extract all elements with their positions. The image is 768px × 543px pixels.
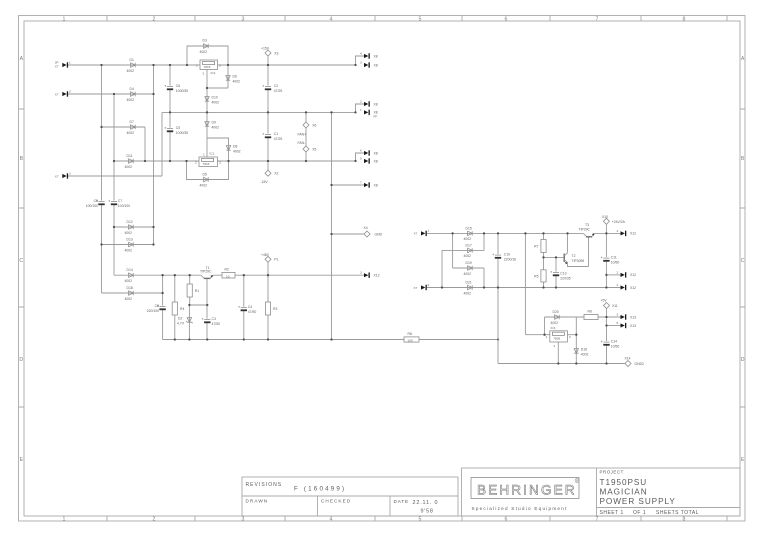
- frame row ticks right: [740, 109, 745, 407]
- wire W2 y94: [68, 93, 154, 95]
- svg-text:47/50: 47/50: [212, 322, 221, 326]
- svg-text:4002: 4002: [127, 69, 135, 73]
- connector X8 pin 4: [360, 52, 378, 59]
- svg-text:SHEETS TOTAL: SHEETS TOTAL: [656, 510, 699, 516]
- svg-text:POWER SUPPLY: POWER SUPPLY: [600, 497, 676, 506]
- wire C13 column x556: [555, 257, 557, 287]
- wire D18 row y293: [102, 292, 163, 294]
- wire W1 +raw rail y65: [68, 64, 356, 66]
- node X2 -15V: [261, 170, 279, 184]
- svg-text:D13: D13: [127, 238, 133, 242]
- diode D5 bypass: [200, 173, 209, 188]
- svg-text:TIP3055: TIP3055: [572, 259, 585, 263]
- wire D12 row y227: [114, 226, 154, 228]
- svg-text:3: 3: [242, 517, 245, 523]
- diode D19: [464, 261, 473, 276]
- transistor T3: [579, 223, 595, 237]
- svg-text:47/25: 47/25: [274, 89, 283, 93]
- frame column ticks top: [107, 16, 727, 22]
- svg-text:C1: C1: [274, 132, 278, 136]
- svg-text:BEHRINGER: BEHRINGER: [477, 483, 577, 498]
- svg-text:D8: D8: [233, 145, 237, 149]
- wire C4 column x243.8: [243, 275, 245, 339]
- svg-text:4002: 4002: [581, 352, 589, 356]
- svg-text:3: 3: [69, 171, 71, 175]
- svg-text:4002: 4002: [464, 237, 472, 241]
- capacitor C10: [492, 253, 516, 262]
- wire D3 bypass loop: [187, 46, 228, 65]
- svg-text:100/100: 100/100: [86, 204, 98, 208]
- wire T2 collector column x567.5: [567, 233, 569, 252]
- svg-text:GND2: GND2: [635, 362, 645, 366]
- capacitor C3: [202, 317, 220, 326]
- svg-text:D11: D11: [127, 154, 133, 158]
- diode D9: [205, 121, 219, 130]
- connector X12 pin 3: [360, 271, 380, 278]
- svg-text:Specialized Studio Equipment: Specialized Studio Equipment: [472, 506, 568, 511]
- svg-text:+48V: +48V: [261, 253, 270, 257]
- wire D8 column x228.5: [207, 138, 229, 161]
- diode D4: [127, 87, 136, 102]
- svg-text:2200/16: 2200/16: [504, 258, 516, 262]
- node X3 +15V: [261, 47, 278, 57]
- svg-text:C14: C14: [611, 340, 617, 344]
- svg-text:D7: D7: [130, 120, 134, 124]
- wire D14 +48 row y275.2: [114, 274, 364, 276]
- wire RH3 D19 row y268: [453, 267, 484, 269]
- diode D15: [464, 226, 473, 241]
- svg-text:100/100: 100/100: [118, 204, 130, 208]
- svg-text:220/35: 220/35: [560, 277, 570, 281]
- svg-text:9'58: 9'58: [421, 509, 434, 515]
- svg-text:D6: D6: [233, 75, 237, 79]
- svg-text:X7: X7: [55, 174, 59, 178]
- svg-text:47/25: 47/25: [274, 137, 283, 141]
- svg-text:R8: R8: [408, 332, 412, 336]
- svg-text:D5: D5: [203, 173, 207, 177]
- wire T1 base vertical x207.3: [206, 279, 208, 340]
- diode D8: [226, 145, 240, 154]
- wire D20 loop left x544.5: [544, 317, 546, 335]
- wire R7 R5 column x543.5: [543, 233, 545, 287]
- junction dots left: [100, 64, 499, 341]
- svg-text:2: 2: [360, 100, 362, 104]
- node X5 FAN-: [298, 141, 317, 152]
- wire T2 base row y257.4: [544, 256, 564, 258]
- svg-text:2: 2: [428, 283, 430, 287]
- svg-text:X4: X4: [364, 226, 368, 230]
- svg-text:1: 1: [428, 229, 430, 233]
- svg-text:4.7V: 4.7V: [177, 322, 185, 326]
- capacitor C13: [550, 271, 570, 281]
- svg-text:1: 1: [360, 108, 362, 112]
- svg-text:C8: C8: [155, 304, 159, 308]
- svg-text:5: 5: [617, 321, 619, 325]
- svg-text:4002: 4002: [125, 297, 133, 301]
- wire vertical x268 output column: [267, 56, 269, 170]
- connector X8 pin 5: [360, 157, 378, 164]
- svg-text:IC3: IC3: [551, 326, 556, 330]
- TITLEBLOCK: [242, 468, 740, 516]
- svg-text:C: C: [19, 258, 23, 264]
- wire R4 column x174.8: [174, 275, 176, 339]
- node X6 FAN+: [298, 122, 317, 137]
- svg-text:X12: X12: [630, 232, 636, 236]
- svg-text:C3: C3: [212, 317, 216, 321]
- connector X12 pin 1: [617, 283, 637, 290]
- svg-text:4002: 4002: [464, 254, 472, 258]
- diode D10: [205, 96, 219, 105]
- svg-text:C4: C4: [248, 305, 252, 309]
- svg-text:A: A: [20, 56, 24, 62]
- transistor T1: [200, 266, 213, 279]
- wire vertical x331.5: [331, 112, 333, 339]
- svg-text:10/50: 10/50: [611, 345, 620, 349]
- wire X13 pin5 row y325.5: [607, 325, 621, 327]
- wire W3 stub to pin2: [356, 104, 365, 112]
- svg-text:4002: 4002: [464, 291, 472, 295]
- wire T1 base node row y305: [189, 304, 207, 306]
- wire P1 R3 column x268: [267, 262, 269, 339]
- wire C10 column x498: [497, 233, 499, 363]
- svg-text:4002: 4002: [127, 131, 135, 135]
- resistor R3: [265, 302, 277, 315]
- svg-text:C13: C13: [560, 272, 566, 276]
- svg-text:X8: X8: [374, 102, 378, 106]
- svg-text:X8: X8: [374, 63, 378, 67]
- diode D13: [125, 238, 134, 253]
- svg-text:D2: D2: [178, 317, 182, 321]
- svg-text:220/100: 220/100: [147, 309, 159, 313]
- svg-text:3: 3: [360, 271, 362, 275]
- diode D17: [464, 243, 473, 258]
- svg-text:+24V/2A: +24V/2A: [612, 220, 626, 224]
- capacitor C1: [262, 132, 282, 141]
- resistor R2: [222, 268, 235, 279]
- node X11 +5V: [601, 299, 618, 309]
- svg-text:D4: D4: [130, 87, 134, 91]
- connector X8 pin 2: [360, 100, 378, 107]
- regulator IC1: [195, 152, 221, 167]
- sheet line: [600, 510, 699, 516]
- connector X7b pin 1: [414, 229, 430, 236]
- svg-text:MAGICIAN: MAGICIAN: [600, 488, 648, 497]
- svg-text:1000/35: 1000/35: [176, 89, 188, 93]
- svg-text:4002: 4002: [464, 272, 472, 276]
- wire C8 column x162.6: [162, 275, 164, 339]
- wire bridge vertical x484: [483, 233, 485, 287]
- svg-text:IC2: IC2: [211, 71, 216, 75]
- svg-text:-15V: -15V: [261, 180, 269, 184]
- connector X8 pin 3: [360, 61, 378, 68]
- connector X7b pin 2: [414, 283, 430, 290]
- date cell: [394, 499, 439, 515]
- frame column numbers bottom: [63, 517, 686, 523]
- svg-text:X6: X6: [312, 123, 316, 127]
- svg-text:8: 8: [683, 517, 686, 523]
- svg-text:E: E: [741, 457, 745, 463]
- svg-text:X8: X8: [374, 151, 378, 155]
- wire bridge vertical x452.6: [452, 233, 454, 268]
- connector X12 pin 4: [617, 229, 637, 236]
- svg-text:4002: 4002: [551, 321, 559, 325]
- svg-text:D: D: [19, 357, 23, 363]
- svg-text:B: B: [20, 156, 24, 162]
- svg-text:5: 5: [419, 16, 422, 22]
- connector X8 pin 1: [360, 108, 378, 119]
- svg-text:D14: D14: [127, 268, 133, 272]
- wire bottom rail y339.5: [163, 339, 498, 341]
- svg-text:X8: X8: [374, 159, 378, 163]
- node X10 +24V: [602, 215, 626, 224]
- behringer logo box: [471, 478, 579, 499]
- wire IC3 output row y334.7: [567, 334, 576, 336]
- wire IC3 gnd pin x558.3: [557, 342, 559, 364]
- svg-text:IC1: IC1: [210, 152, 215, 156]
- capacitor C7: [108, 199, 130, 208]
- svg-text:X11: X11: [612, 304, 618, 308]
- svg-text:T2: T2: [572, 254, 576, 258]
- wire X12 pin2 row y274.9: [606, 274, 620, 276]
- svg-text:4002: 4002: [200, 184, 208, 188]
- svg-text:R5: R5: [534, 275, 538, 279]
- diode D1: [127, 58, 136, 73]
- node X4 GND: [364, 226, 383, 237]
- svg-text:1: 1: [617, 283, 619, 287]
- svg-text:2: 2: [69, 89, 71, 93]
- frame column ticks bottom: [107, 516, 727, 521]
- diode D14: [125, 268, 134, 283]
- svg-text:5: 5: [360, 157, 362, 161]
- node P1 +48V: [261, 253, 278, 262]
- revisions header text: [246, 482, 347, 493]
- svg-text:4002: 4002: [233, 79, 241, 83]
- svg-text:C11: C11: [611, 256, 617, 260]
- wire vertical x101.5: [101, 65, 103, 293]
- wire W5 -raw rail y161: [114, 160, 356, 162]
- capacitor C11: [601, 256, 620, 265]
- zener D2 4.7V: [177, 317, 193, 326]
- svg-text:4002: 4002: [233, 149, 241, 153]
- svg-text:FF: FF: [374, 115, 378, 119]
- svg-text:D17: D17: [466, 243, 472, 247]
- svg-text:D10: D10: [212, 96, 218, 100]
- svg-text:X12: X12: [630, 273, 636, 277]
- wire IC3 feed column x525.4: [524, 233, 526, 334]
- diode D18: [125, 286, 134, 301]
- wire pin7 row y185: [332, 184, 365, 186]
- svg-text:3: 3: [242, 16, 245, 22]
- svg-text:T3: T3: [585, 223, 589, 227]
- wire fan stub column x306: [305, 112, 307, 161]
- svg-text:7805: 7805: [553, 336, 560, 340]
- svg-text:1: 1: [546, 335, 548, 339]
- svg-text:SHEET 1: SHEET 1: [600, 510, 624, 516]
- svg-text:B: B: [741, 156, 745, 162]
- transistor T2: [564, 253, 584, 264]
- connector X8 pin 6: [360, 149, 378, 156]
- wire vertical x170 C6 C5 column: [169, 65, 171, 161]
- svg-text:D3: D3: [203, 39, 207, 43]
- svg-text:X5: X5: [312, 147, 316, 151]
- svg-text:1000/35: 1000/35: [176, 131, 188, 135]
- wire W1 stub to pin4: [356, 56, 365, 65]
- capacitor C8: [147, 304, 166, 313]
- svg-text:3: 3: [219, 64, 221, 68]
- node X14 GND2: [625, 356, 645, 366]
- diode D11: [125, 154, 134, 169]
- svg-text:C6: C6: [176, 84, 180, 88]
- capacitor C5: [164, 126, 188, 135]
- svg-text:D16: D16: [581, 348, 587, 352]
- wire bridge vertical x442: [441, 250, 443, 287]
- wire T2 emitter to T3 base: [568, 237, 589, 267]
- wire C11 column x606.4: [605, 224, 607, 287]
- svg-text:A: A: [741, 56, 745, 62]
- svg-text:4: 4: [330, 517, 333, 523]
- svg-text:D12: D12: [127, 220, 133, 224]
- wire vertical x114: [113, 94, 115, 275]
- capacitor C6: [164, 84, 188, 93]
- svg-text:FAN-: FAN-: [298, 141, 306, 145]
- wire RH1 +raw24 rail y233.4: [427, 232, 621, 234]
- svg-text:4002: 4002: [200, 50, 208, 54]
- svg-text:6: 6: [360, 149, 362, 153]
- junction dots right: [441, 232, 608, 364]
- svg-text:4002: 4002: [212, 125, 220, 129]
- wire D16 column x576.3: [575, 317, 577, 364]
- svg-text:TIP29C: TIP29C: [200, 270, 212, 274]
- connector X12 pin 2: [617, 270, 637, 277]
- svg-text:3: 3: [219, 161, 221, 165]
- svg-text:TIP29C: TIP29C: [579, 228, 591, 232]
- svg-text:D21: D21: [466, 281, 472, 285]
- svg-text:GND: GND: [375, 232, 383, 236]
- svg-text:D15: D15: [466, 226, 472, 230]
- svg-text:OF 1: OF 1: [633, 510, 646, 516]
- regulator IC3: [546, 326, 571, 348]
- svg-text:+15V: +15V: [261, 47, 270, 51]
- svg-text:CHECKED: CHECKED: [321, 499, 351, 504]
- svg-text:X12: X12: [630, 286, 636, 290]
- svg-text:E: E: [20, 457, 24, 463]
- svg-text:D18: D18: [127, 286, 133, 290]
- svg-text:4002: 4002: [125, 279, 133, 283]
- svg-text:F (160499): F (160499): [294, 486, 346, 493]
- wire R1 zener column x189.5: [188, 275, 190, 339]
- svg-text:X2: X2: [274, 172, 278, 176]
- svg-text:2: 2: [617, 270, 619, 274]
- connector X13 pin 3: [617, 313, 637, 320]
- regulator IC2: [196, 60, 221, 76]
- svg-text:10/50: 10/50: [611, 261, 620, 265]
- svg-text:X7: X7: [55, 64, 59, 68]
- svg-text:7: 7: [596, 517, 599, 523]
- svg-text:6: 6: [505, 517, 508, 523]
- svg-text:22.11. 0: 22.11. 0: [413, 500, 439, 506]
- svg-text:D: D: [741, 357, 745, 363]
- svg-text:+5V: +5V: [601, 299, 608, 303]
- svg-text:D20: D20: [553, 310, 559, 314]
- svg-text:1: 1: [63, 16, 66, 22]
- svg-text:C10: C10: [504, 253, 510, 257]
- capacitor C9: [86, 199, 105, 208]
- svg-text:7815: 7815: [204, 65, 211, 69]
- frame row letters left: [19, 56, 23, 463]
- svg-text:X12: X12: [374, 274, 380, 278]
- svg-text:7: 7: [596, 16, 599, 22]
- wire vertical x145: [144, 127, 146, 161]
- wire +5 rail y317: [545, 316, 621, 318]
- resistor R8: [404, 332, 419, 342]
- svg-text:DRAWN: DRAWN: [246, 499, 269, 504]
- resistor R4: [172, 302, 184, 315]
- svg-text:FAN+: FAN+: [298, 133, 307, 137]
- svg-text:2: 2: [554, 344, 556, 348]
- wire gnd row y234: [332, 233, 365, 235]
- resistor R7: [534, 240, 546, 253]
- wire vertical x162 center tap riser: [161, 112, 163, 176]
- wire vertical x153.5: [153, 65, 155, 245]
- frame row ticks left: [19, 109, 25, 407]
- svg-text:1: 1: [63, 517, 66, 523]
- svg-text:2: 2: [153, 517, 156, 523]
- diode D21: [464, 281, 473, 296]
- wire W5 stub to pin6: [356, 153, 365, 161]
- svg-text:T1950PSU: T1950PSU: [600, 478, 648, 487]
- connector X7 pin 1: [55, 60, 71, 68]
- diode D16: [574, 348, 588, 357]
- svg-text:X8: X8: [374, 54, 378, 58]
- connector X13 pin 5: [617, 321, 637, 328]
- svg-text:2: 2: [153, 16, 156, 22]
- svg-text:10: 10: [226, 274, 230, 278]
- wire RH4 minus rail y287.5: [427, 287, 621, 289]
- svg-text:4002: 4002: [127, 98, 135, 102]
- svg-text:D19: D19: [466, 261, 472, 265]
- wire RH2 D17 row y250.4: [442, 249, 484, 251]
- wire D5 bypass loop IC1: [187, 161, 229, 180]
- diode D7: [127, 120, 136, 135]
- svg-text:R4: R4: [180, 307, 184, 311]
- svg-text:1: 1: [69, 60, 71, 64]
- svg-text:PROJECT: PROJECT: [600, 470, 624, 475]
- svg-text:DATE: DATE: [394, 499, 410, 504]
- svg-text:C2: C2: [274, 84, 278, 88]
- svg-text:4002: 4002: [212, 100, 220, 104]
- svg-text:4002: 4002: [125, 231, 133, 235]
- svg-text:X3: X3: [274, 51, 278, 55]
- svg-text:7915: 7915: [203, 162, 210, 166]
- connector X7 pin 3: [55, 171, 71, 178]
- resistor R1: [187, 284, 199, 297]
- svg-text:C9: C9: [94, 199, 98, 203]
- project name lines: [600, 478, 676, 506]
- frame row letters right: [741, 56, 745, 463]
- wire W4 y127: [102, 126, 146, 128]
- svg-text:R1: R1: [195, 289, 199, 293]
- svg-text:1: 1: [203, 153, 205, 157]
- wire IC3 input row y334.7: [525, 334, 549, 336]
- wire IC2 pin2 row y88: [207, 65, 228, 88]
- svg-text:47/50: 47/50: [248, 310, 257, 314]
- svg-text:5: 5: [419, 517, 422, 523]
- svg-text:X13: X13: [630, 324, 636, 328]
- svg-text:3: 3: [360, 61, 362, 65]
- capacitor C4: [238, 305, 256, 314]
- title box: [462, 468, 741, 516]
- svg-text:REVISIONS: REVISIONS: [246, 482, 283, 488]
